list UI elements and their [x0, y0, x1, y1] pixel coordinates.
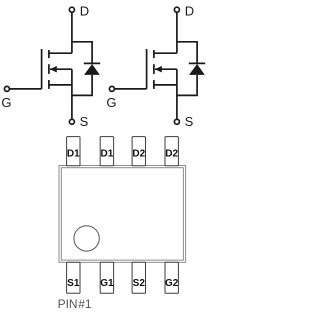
pin 7 top (D1)	[100, 137, 113, 166]
wire gate Q2	[115, 88, 147, 90]
wire drain vertical Q1	[71, 12, 73, 53]
diode cathode bar Q1	[84, 62, 100, 64]
svg-text:D1: D1	[67, 149, 80, 160]
package body inner outline	[61, 168, 183, 260]
source stub Q1	[49, 84, 72, 86]
pin 3 bottom (S2)	[132, 262, 145, 293]
wire body-to-source and S terminal Q1	[71, 69, 73, 119]
diode cathode bar Q2	[189, 62, 205, 64]
channel segment middle Q1	[48, 64, 50, 74]
wire body-to-source and S terminal Q2	[176, 69, 178, 119]
body arrow Q1	[50, 66, 57, 73]
gate bar Q1	[41, 49, 43, 89]
svg-text:G2: G2	[165, 278, 179, 289]
svg-text:S2: S2	[133, 278, 146, 289]
channel segment bottom Q1	[48, 80, 50, 89]
wire diode to source Q1	[72, 75, 92, 96]
body stub Q1	[50, 68, 72, 70]
gate bar Q2	[146, 49, 148, 89]
svg-text:D: D	[185, 3, 194, 18]
wire drain vertical Q2	[176, 12, 178, 53]
channel segment bottom Q2	[153, 80, 155, 89]
pin 4 bottom (G2)	[165, 262, 178, 293]
drain stub Q1	[49, 52, 72, 54]
body stub Q2	[155, 68, 177, 70]
body arrow Q2	[155, 66, 162, 73]
pin 1 indicator circle	[74, 226, 99, 251]
svg-text:G: G	[106, 95, 116, 110]
terminal circle S Q2	[174, 119, 179, 124]
source stub Q2	[154, 84, 177, 86]
channel segment top Q1	[48, 50, 50, 58]
svg-text:D: D	[80, 3, 89, 18]
transistor Q1 (left N-channel MOSFET)	[10, 12, 101, 119]
channel segment top Q2	[153, 50, 155, 58]
wire drain to diode Q1	[72, 42, 92, 64]
svg-text:S1: S1	[67, 278, 80, 289]
svg-text:D2: D2	[165, 149, 178, 160]
body diode triangle Q2	[189, 64, 205, 75]
terminal circle D Q1	[69, 7, 74, 12]
terminal circle S Q1	[69, 119, 74, 124]
svg-text:G: G	[1, 95, 11, 110]
wire diode to source Q2	[177, 75, 197, 96]
channel segment middle Q2	[153, 64, 155, 74]
pin 6 top (D2)	[132, 137, 145, 166]
wire gate Q1	[10, 88, 42, 90]
pin 1 bottom (S1)	[67, 262, 80, 293]
transistor Q2 (right N-channel MOSFET)	[106, 3, 205, 128]
svg-text:G1: G1	[100, 278, 114, 289]
wire drain to diode Q2	[177, 42, 197, 64]
body diode triangle Q1	[84, 64, 100, 75]
svg-text:D2: D2	[132, 149, 145, 160]
pin 8 top (D1)	[67, 137, 80, 166]
package body outer outline (SO-8)	[59, 166, 186, 263]
terminal circle G Q1	[4, 86, 9, 91]
svg-text:S: S	[80, 114, 89, 129]
svg-text:S: S	[185, 114, 194, 129]
pin 2 bottom (G1)	[100, 262, 113, 293]
svg-text:D1: D1	[101, 149, 114, 160]
pin 5 top (D2)	[165, 137, 178, 166]
svg-text:PIN#1: PIN#1	[58, 297, 92, 311]
terminal circle D Q2	[174, 7, 179, 12]
terminal circle G Q2	[109, 86, 114, 91]
drain stub Q2	[154, 52, 177, 54]
